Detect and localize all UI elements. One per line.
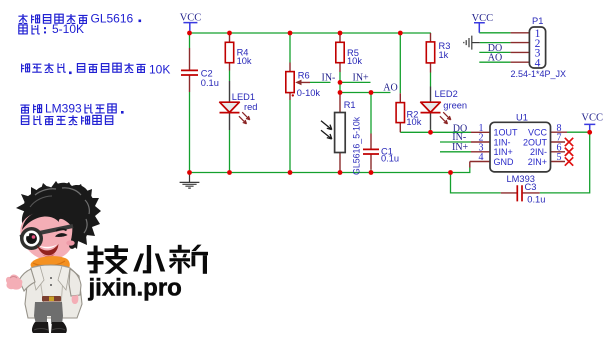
wire IN- to U1 (440, 141, 471, 143)
coat body (25, 265, 82, 318)
svg-text:U1: U1 (516, 113, 528, 123)
pin leads LED2 (430, 87, 432, 130)
pin leads C3 (501, 192, 540, 194)
svg-text:R1: R1 (344, 100, 356, 110)
svg-text:2OUT: 2OUT (523, 137, 548, 147)
svg-text:R6: R6 (298, 70, 310, 80)
svg-text:1IN-: 1IN- (494, 137, 511, 147)
wire C1 bottom (370, 170, 372, 173)
LED1 (220, 102, 250, 124)
shirt (44, 266, 58, 298)
wire U1 pin8 to VCC (567, 131, 590, 133)
resistor R2 (396, 103, 404, 123)
brand 技小新 (drawn) (88, 245, 209, 274)
power VCC right (581, 112, 603, 132)
wire top VCC rail (190, 32, 431, 34)
ground bottom-left (180, 173, 200, 189)
svg-text:10k: 10k (237, 56, 252, 66)
svg-text:green: green (443, 101, 467, 111)
svg-text:red: red (244, 102, 257, 112)
left arm + hand (19, 269, 35, 291)
pin leads R5 (339, 33, 341, 72)
pin leads R2 (399, 93, 401, 132)
no-connect X pin6 (565, 148, 573, 156)
svg-text:0.1u: 0.1u (201, 78, 219, 88)
pin leads R1 (339, 93, 341, 173)
小 (133, 245, 165, 273)
svg-text:GND: GND (494, 157, 515, 167)
coat lapels (38, 266, 64, 318)
wire AO stub (340, 92, 391, 94)
svg-text:VCC: VCC (581, 112, 603, 123)
wire R5 bottom node (339, 72, 341, 93)
svg-text:0.1u: 0.1u (527, 194, 545, 204)
svg-text:10k: 10k (406, 117, 421, 127)
wire DO net (400, 131, 471, 133)
U1 pin numbers (479, 123, 562, 163)
wire left column lower (189, 92, 191, 173)
U1 pin names (494, 128, 548, 167)
svg-text:1OUT: 1OUT (494, 128, 519, 138)
connector P1 box (529, 27, 545, 68)
lens (20, 227, 43, 250)
capacitor C1 (363, 149, 379, 154)
svg-text:C2: C2 (201, 68, 213, 78)
技 (88, 245, 129, 274)
svg-text:GL5616_5-10k: GL5616_5-10k (352, 116, 362, 175)
wire R6 top (289, 33, 291, 63)
ground at P1 (464, 36, 480, 50)
note line5: 可以输出数字信号 (21, 115, 112, 125)
node VCC right junction (587, 130, 592, 135)
resistor R6 (pot) (286, 72, 302, 97)
wire R2 top (399, 33, 401, 93)
wire bottom ground rail (190, 172, 451, 174)
svg-text:VCC: VCC (528, 128, 548, 138)
photoresistor R1 (321, 113, 345, 153)
svg-text:IN+: IN+ (452, 142, 469, 153)
wire P1 pin3 DO (479, 51, 510, 53)
wire LED2 cathode (430, 130, 432, 133)
capacitor C2 (181, 70, 198, 75)
svg-text:1IN+: 1IN+ (494, 147, 513, 157)
wire C1 top (370, 93, 372, 134)
svg-text:10K: 10K (149, 62, 170, 76)
pants (34, 314, 47, 324)
wire left column upper (189, 33, 191, 48)
sideburn right (69, 222, 78, 249)
node VCC rail junctions (187, 31, 192, 36)
resistor R5 (336, 42, 344, 62)
wire R4-LED1 gap (229, 71, 231, 82)
capacitor C3 (517, 185, 522, 201)
svg-text:LED2: LED2 (435, 89, 458, 99)
svg-text:LM393: LM393 (45, 102, 82, 116)
wire LED1 cathode to rail (229, 130, 231, 173)
LED dark pins (230, 81, 431, 130)
node ground rail junctions (187, 170, 192, 175)
svg-text:4: 4 (535, 57, 541, 69)
resistor R4 (225, 42, 233, 62)
pin leads U1 left (470, 132, 490, 167)
svg-text:4: 4 (479, 152, 484, 163)
wire R6 bottom (289, 100, 291, 173)
svg-text:LED1: LED1 (232, 92, 255, 102)
P1 pin numbers (535, 28, 541, 69)
wire GND to C3 (451, 173, 501, 193)
pin leads R3 (430, 33, 432, 73)
scarf (31, 256, 70, 274)
wire P1 pin4 AO (479, 61, 510, 63)
blush (66, 240, 74, 245)
node DO junction (428, 130, 433, 135)
pin leads P1 (511, 33, 530, 62)
resistor R3 (426, 42, 434, 63)
pin leads U1 right (551, 132, 568, 161)
fringe (22, 210, 74, 230)
power VCC top-left (180, 13, 202, 33)
op-amp U1 LM393 box (490, 122, 551, 172)
LED2 (421, 102, 451, 124)
note line2: 阻值：5-10K (19, 22, 84, 36)
新 (169, 245, 208, 274)
mouth (37, 244, 59, 255)
pin leads LED1 (229, 81, 231, 130)
wire C3 to VCC column (540, 132, 590, 193)
svg-text:5: 5 (557, 152, 562, 163)
right hand (72, 295, 79, 304)
note line4: 通过LM393比较器， (20, 102, 123, 116)
eye right (55, 233, 68, 237)
svg-text:IN-: IN- (322, 72, 336, 83)
svg-text:AO: AO (488, 53, 502, 64)
wire R3-LED2 gap (430, 73, 432, 87)
wire IN+ to U1 (440, 151, 471, 153)
boots (32, 322, 49, 333)
svg-text:0-10k: 0-10k (297, 88, 321, 98)
wire P1 pin1 (479, 32, 510, 34)
node divider junctions (338, 80, 343, 85)
belt (42, 296, 61, 302)
mascot jixin boy (6, 181, 101, 333)
svg-text:IN+: IN+ (353, 73, 370, 84)
wire IN+ stub (340, 81, 371, 83)
power VCC at P1 (472, 13, 494, 33)
no-connect X pin7 (565, 138, 573, 166)
pin leads C2 (189, 48, 191, 92)
pin leads R6 (290, 63, 310, 101)
svg-text:P1: P1 (532, 16, 543, 26)
svg-text:GL5616: GL5616 (91, 11, 134, 25)
hair (22, 183, 94, 241)
no-connect X pin5 (565, 157, 573, 165)
face (20, 212, 74, 260)
wire R6 wiper stub (310, 81, 331, 83)
svg-text:2IN-: 2IN- (530, 147, 547, 157)
patch band (20, 226, 73, 237)
svg-text:10k: 10k (347, 56, 362, 66)
svg-text:0.1u: 0.1u (381, 153, 399, 163)
wire P1 pin2 (480, 42, 511, 44)
svg-text:AO: AO (383, 82, 397, 93)
wire U1 GND down (451, 168, 470, 173)
pin leads C1 (370, 134, 372, 170)
net labels serif (322, 43, 503, 153)
svg-text:2.54-1*4P_JX: 2.54-1*4P_JX (511, 69, 567, 79)
svg-text:C3: C3 (525, 182, 537, 192)
note line1: 光敏电阻采用GL5616， (18, 11, 141, 25)
svg-text:2IN+: 2IN+ (528, 157, 547, 167)
right arm (69, 269, 81, 296)
svg-text:5-10K: 5-10K (52, 22, 84, 36)
svg-text:1k: 1k (439, 50, 449, 60)
note line3: 配合光敏，可调电阻采用10K (22, 62, 171, 76)
svg-text:jixin.pro: jixin.pro (88, 275, 182, 302)
pin leads R4 (229, 33, 231, 71)
